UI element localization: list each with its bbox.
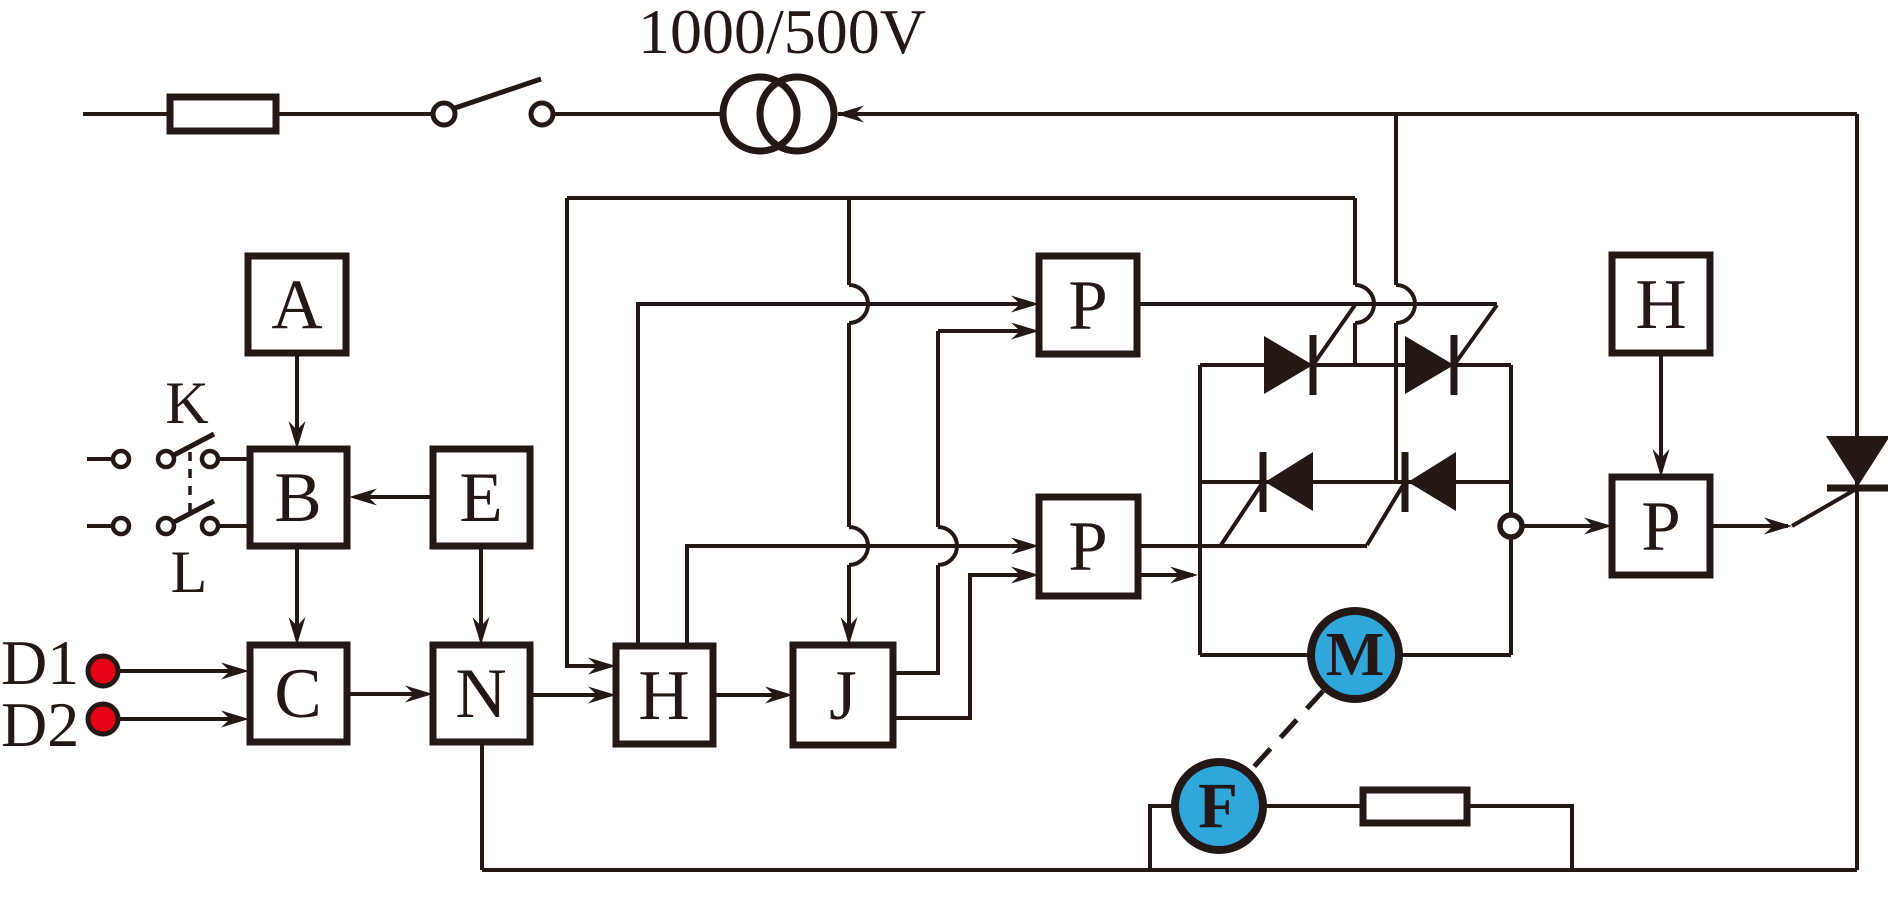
svg-text:B: B bbox=[274, 459, 321, 537]
svg-text:C: C bbox=[274, 655, 321, 733]
wire: A to B bbox=[295, 353, 299, 443]
svg-text:P: P bbox=[1068, 267, 1108, 345]
wire: contact L to B bbox=[218, 524, 250, 528]
svg-text:D1: D1 bbox=[1, 627, 79, 698]
box J bbox=[793, 645, 893, 745]
wire: D2 to C bbox=[118, 717, 243, 721]
svg-text:N: N bbox=[455, 655, 506, 733]
wire: bridge middle row bbox=[1200, 480, 1511, 484]
svg-text:H: H bbox=[638, 657, 689, 735]
wire: contact K to B bbox=[218, 457, 250, 461]
thyristor V3 triangle bbox=[1265, 452, 1313, 511]
mechanical coupling M-F (dashed) bbox=[1251, 691, 1323, 770]
contact L blade bbox=[174, 501, 214, 522]
wire: sync bus y=198 bbox=[567, 196, 1355, 200]
box C bbox=[250, 645, 347, 742]
wire: fuse to switch bbox=[276, 112, 431, 116]
thyristor V2 triangle bbox=[1405, 336, 1454, 394]
wire hop over line y=546 bbox=[938, 527, 957, 565]
svg-text:J: J bbox=[829, 657, 857, 735]
fuse FU bbox=[170, 97, 276, 131]
node: bridge output terminal circle bbox=[1500, 515, 1522, 537]
wire: vertical from P1 input2 line down to J output 1 (upper) bbox=[936, 331, 940, 527]
svg-text:K: K bbox=[165, 370, 208, 436]
contact L outer terminal bbox=[113, 518, 129, 534]
box E bbox=[433, 449, 530, 546]
arrowhead H2 into P3 bbox=[1653, 449, 1670, 477]
wire: N bottom to feedback bus bbox=[480, 742, 484, 870]
arrowhead D2 into C bbox=[221, 711, 249, 728]
box A bbox=[248, 256, 346, 353]
wire hop over firing line y=304 bbox=[1355, 285, 1374, 323]
thyristor V2 gate lead bbox=[1454, 305, 1497, 365]
thyristor V1 gate lead bbox=[1313, 305, 1355, 365]
wire: AC mains input segment left bbox=[83, 112, 170, 116]
thyristor V2 cathode bar bbox=[1451, 335, 1458, 395]
wire: sync drop to J (middle part) bbox=[847, 323, 851, 527]
wire: J feedback up to P1 input 2 bbox=[938, 329, 1033, 333]
wire: vertical down to J output 1 (lower) bbox=[893, 565, 938, 673]
node A: bridge left rail bbox=[1198, 365, 1202, 655]
svg-text:D2: D2 bbox=[1, 689, 79, 760]
wire: tacho F right lead to resistor bbox=[1267, 804, 1363, 808]
thyristor V triangle bbox=[1826, 436, 1888, 486]
contact L wire stub left bbox=[87, 524, 113, 528]
wire: N to H bbox=[530, 693, 610, 697]
contact L left pole bbox=[158, 518, 174, 534]
wire: J output 2 to P2 input 2 bbox=[893, 575, 1033, 718]
arrowhead A into B bbox=[289, 421, 306, 449]
switch QS left contact bbox=[433, 103, 455, 125]
wire: right edge drop to thyristor V bbox=[1855, 114, 1859, 870]
wire hop over firing line y=304 bbox=[1396, 285, 1415, 323]
svg-text:A: A bbox=[271, 266, 322, 344]
wire: bridge output to P3 bbox=[1522, 524, 1606, 528]
wire: P2 output firing line to lower thyristor gates bbox=[1138, 544, 1367, 548]
motor M circle bbox=[1311, 611, 1399, 699]
arrowhead P2 output 2 into bridge left rail bbox=[1170, 567, 1198, 584]
node B: bridge right rail bbox=[1509, 365, 1513, 655]
wire: top bus from transformer to right edge bbox=[838, 112, 1857, 116]
indicator lamp D2 bbox=[88, 704, 118, 734]
box N bbox=[433, 645, 530, 742]
wire: E to N bbox=[479, 546, 483, 639]
arrowhead E into N bbox=[473, 617, 490, 645]
wire: bridge top row bbox=[1200, 363, 1511, 367]
wire: P2 output 2 into bridge bbox=[1138, 573, 1193, 577]
box H bbox=[616, 646, 713, 744]
arrowhead into transformer (pointing left) bbox=[836, 106, 864, 123]
thyristor V1 cathode bar bbox=[1310, 335, 1317, 395]
transformer T 1000/500V secondary circle bbox=[760, 77, 834, 151]
wire: E to B bbox=[355, 495, 433, 499]
arrowhead B into C bbox=[289, 617, 306, 645]
contact K wire stub left bbox=[87, 457, 113, 461]
wire: P1 output firing line to upper thyristor gates bbox=[1137, 302, 1497, 306]
wire: top bus drop to bridge mid row (lower part) bbox=[1394, 323, 1398, 482]
wire: P3 output bbox=[1710, 524, 1788, 528]
thyristor V gate lead bbox=[1792, 488, 1858, 526]
wire: H2 down to P3 bbox=[1659, 353, 1663, 471]
thyristor V4 gate lead bbox=[1367, 482, 1405, 545]
svg-text:1000/500V: 1000/500V bbox=[638, 0, 926, 67]
thyristor V4 cathode bar bbox=[1402, 452, 1409, 512]
wire: bottom feedback bus bbox=[482, 868, 1857, 872]
contact K blade bbox=[174, 434, 214, 455]
thyristor V3 cathode bar bbox=[1260, 452, 1267, 512]
thyristor V cathode bar bbox=[1827, 485, 1888, 492]
transformer T 1000/500V primary circle bbox=[723, 77, 797, 151]
wire hop over gate line y=546 bbox=[849, 527, 868, 565]
box P1 bbox=[1039, 256, 1137, 354]
wire: C to N bbox=[347, 692, 427, 696]
box P2 bbox=[1039, 497, 1138, 596]
thyristor V1 triangle bbox=[1264, 336, 1313, 394]
box H2 bbox=[1612, 255, 1710, 353]
wire: bridge bottom row through motor bbox=[1200, 653, 1511, 657]
arrowhead sync into J top bbox=[841, 617, 858, 645]
svg-text:H: H bbox=[1635, 266, 1686, 344]
switch QS right contact bbox=[531, 103, 553, 125]
wire: sync drop to J (lower part) bbox=[847, 565, 851, 639]
switch QS blade bbox=[455, 79, 541, 108]
wire: top bus drop to bridge mid row (upper part) bbox=[1394, 114, 1398, 285]
wire: D1 to C bbox=[118, 669, 243, 673]
contact L right pole bbox=[202, 518, 218, 534]
wire: B to C bbox=[295, 546, 299, 639]
svg-text:E: E bbox=[459, 459, 502, 537]
arrowhead into P2 input 1 bbox=[1011, 538, 1039, 555]
contact K outer terminal bbox=[113, 451, 129, 467]
svg-text:P: P bbox=[1641, 488, 1681, 566]
arrowhead into P2 input 2 bbox=[1011, 567, 1039, 584]
wire: H top feed to P2 line y=546 bbox=[687, 546, 1033, 646]
arrowhead sync into H bbox=[588, 658, 616, 675]
arrowhead C into N bbox=[405, 686, 433, 703]
arrowhead H into J bbox=[765, 687, 793, 704]
resistor R bbox=[1363, 790, 1467, 823]
svg-text:F: F bbox=[1198, 770, 1238, 842]
wire: switch to transformer bbox=[555, 112, 722, 116]
indicator lamp D1 bbox=[88, 656, 118, 686]
arrowhead N into H bbox=[588, 687, 616, 704]
wire: H top feed to P1 firing line y=304 bbox=[638, 304, 1033, 646]
svg-text:M: M bbox=[1326, 621, 1385, 689]
arrowhead D1 into C bbox=[221, 663, 249, 680]
contact K right pole bbox=[202, 451, 218, 467]
arrowhead into P1 input 2 bbox=[1011, 323, 1039, 340]
thyristor V4 triangle bbox=[1408, 452, 1456, 511]
svg-text:L: L bbox=[171, 539, 208, 605]
thyristor V3 gate lead bbox=[1221, 482, 1263, 545]
arrowhead E into B bbox=[349, 489, 377, 506]
mechanical link K-L (dashed) bbox=[188, 452, 192, 512]
box P3 bbox=[1612, 477, 1710, 575]
wire: sync drop to J (upper part) bbox=[847, 198, 851, 285]
tacho generator F circle bbox=[1175, 762, 1263, 850]
arrowhead into P1 input 1 bbox=[1011, 296, 1039, 313]
box B bbox=[250, 449, 347, 546]
wire: resistor to bottom bus bbox=[1467, 806, 1572, 870]
wire: sync drop to H input bbox=[567, 198, 610, 666]
wire hop over gate line y=304 bbox=[849, 285, 868, 323]
arrowhead into P3 input bbox=[1584, 518, 1612, 535]
wire: tacho F left lead bbox=[1150, 806, 1171, 870]
svg-text:P: P bbox=[1068, 508, 1108, 586]
wire: sync drop to bridge top (upper part) bbox=[1353, 198, 1357, 285]
wire: H to J bbox=[713, 693, 787, 697]
wire: sync drop to bridge top (lower part) bbox=[1353, 323, 1357, 365]
arrowhead P3 output bbox=[1764, 518, 1792, 535]
contact K left pole bbox=[158, 451, 174, 467]
